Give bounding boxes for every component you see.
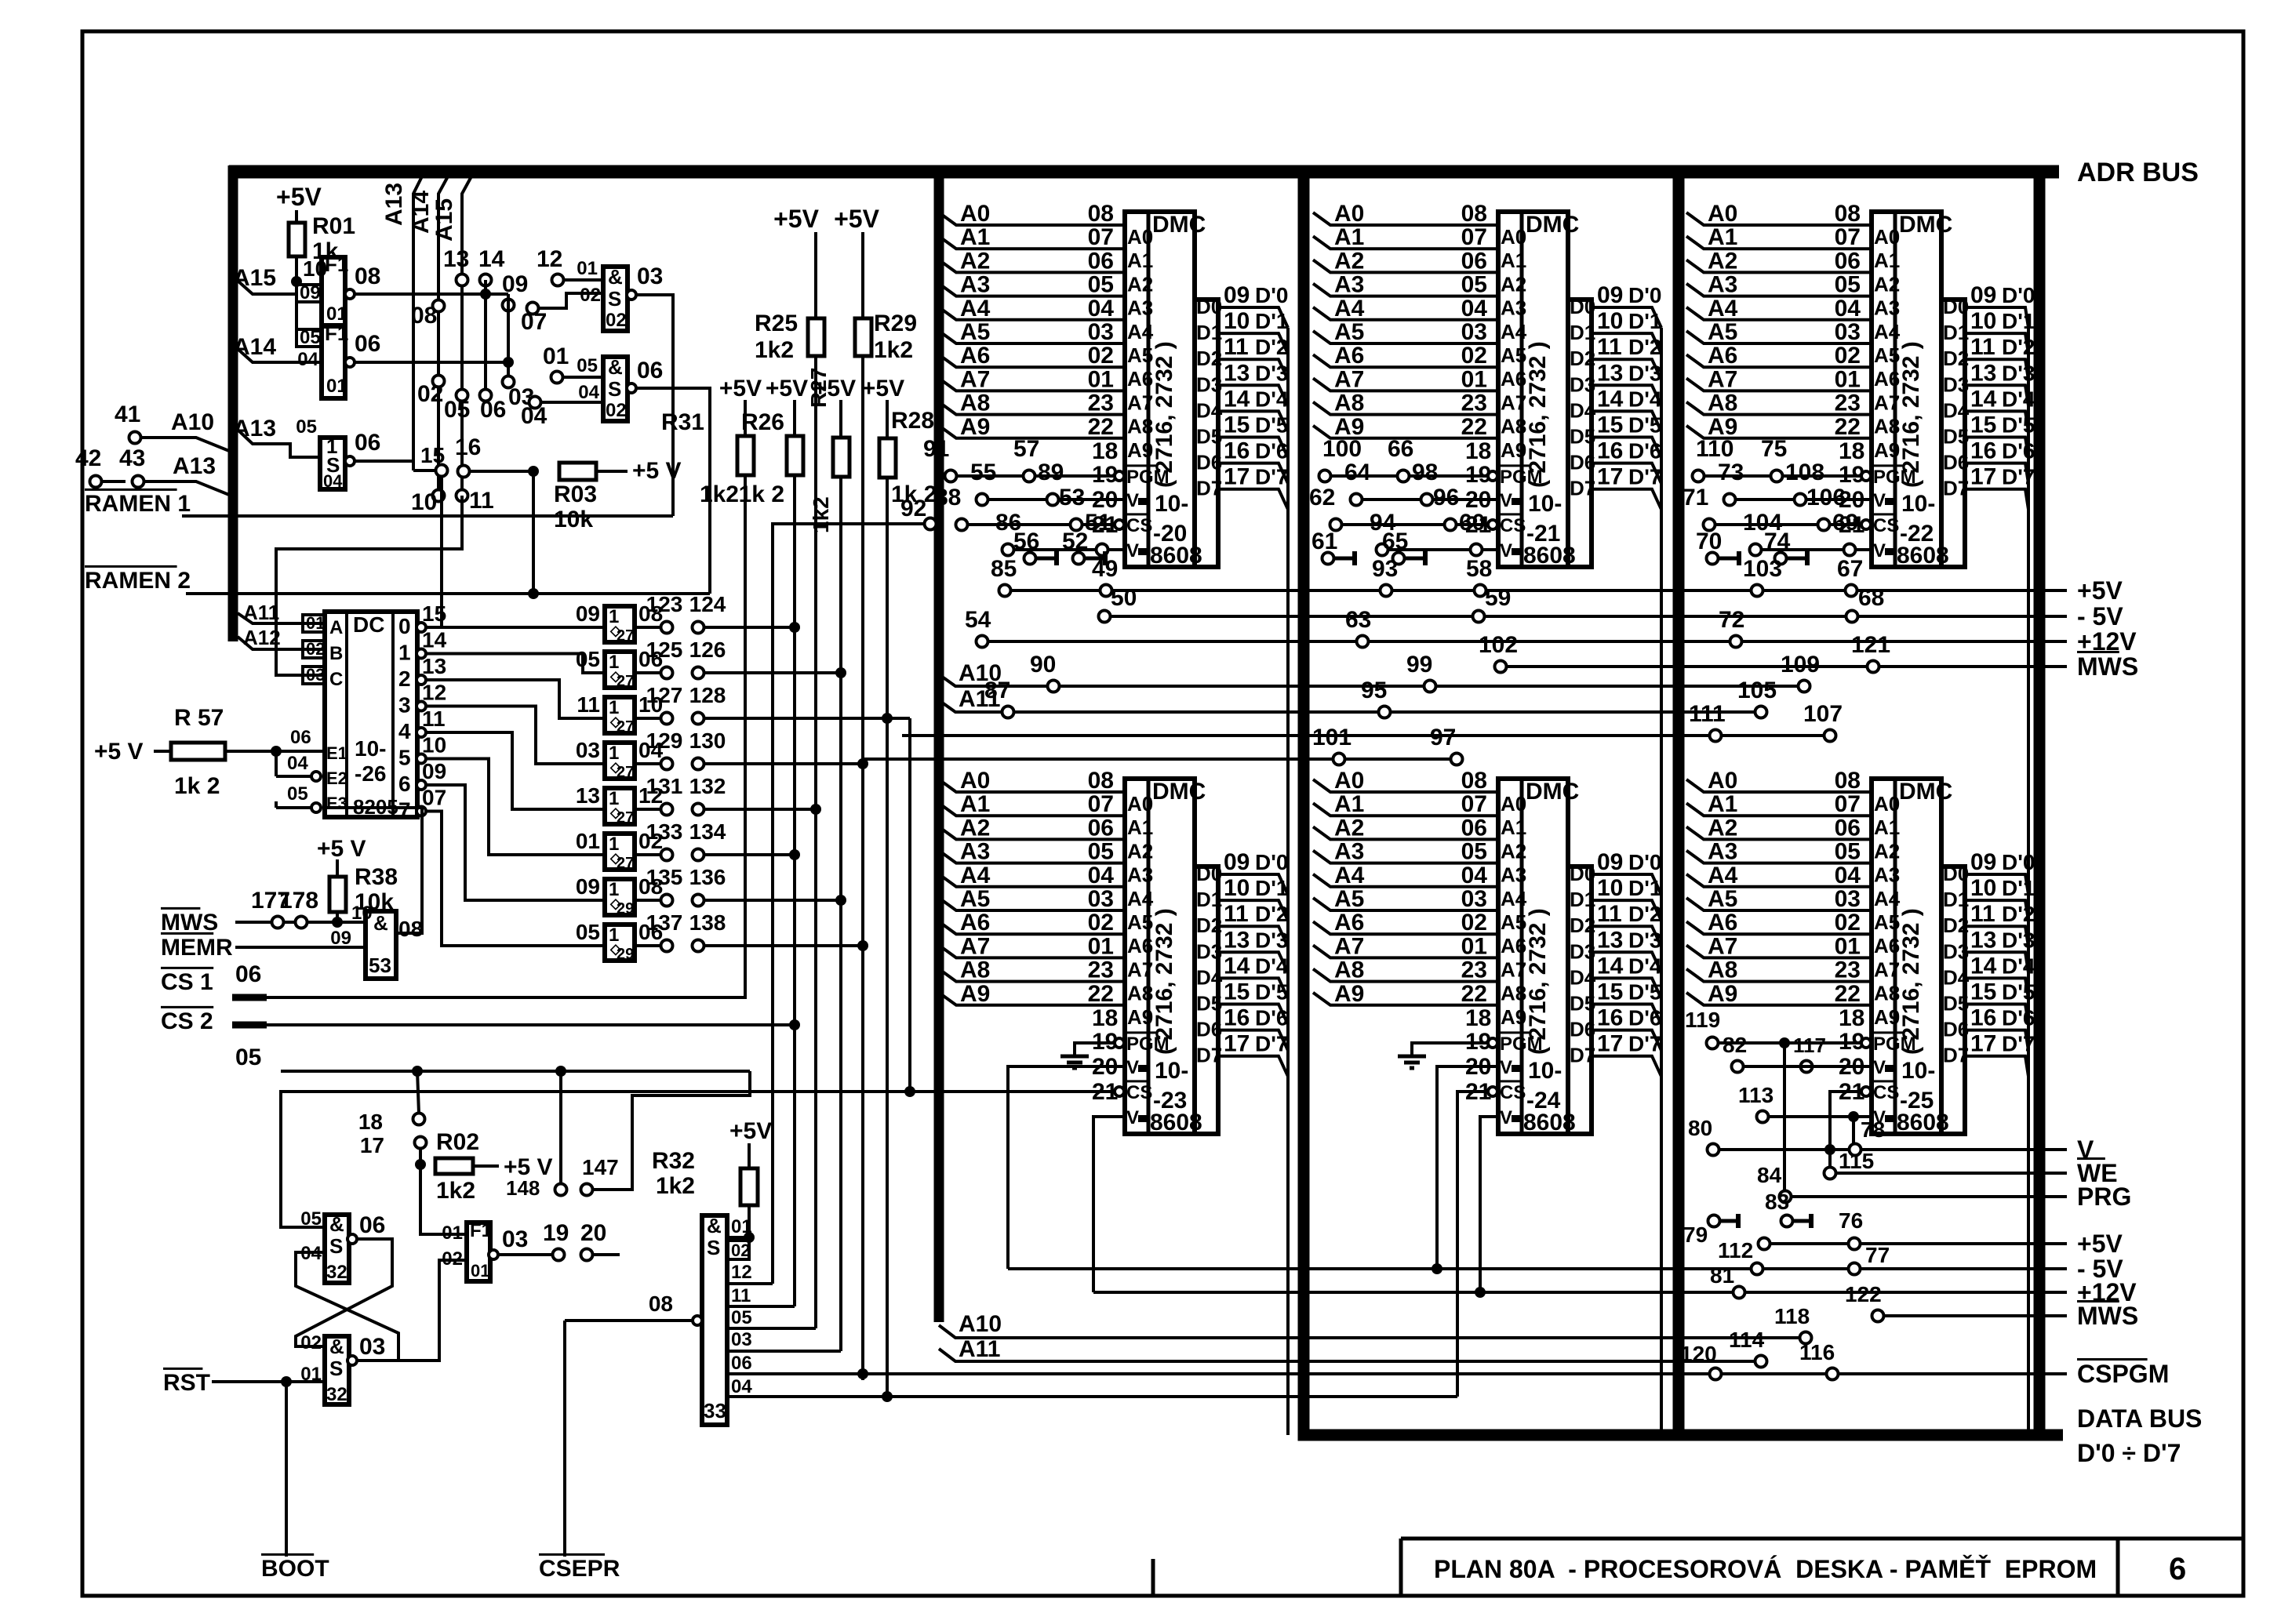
svg-text:04: 04 xyxy=(1088,296,1115,322)
svg-text:32: 32 xyxy=(326,1384,347,1405)
wire R02 node down to F1 input xyxy=(420,1164,467,1234)
pin bubble PGM U10-21 xyxy=(1488,471,1497,481)
svg-text:&: & xyxy=(707,1214,722,1237)
svg-text:122: 122 xyxy=(1845,1282,1882,1306)
svg-text:121: 121 xyxy=(1851,632,1890,658)
svg-text:A10: A10 xyxy=(171,409,214,435)
buffer gate 29 row 7 xyxy=(605,879,635,915)
col3 right thick vertical bus xyxy=(2034,165,2046,1441)
svg-text:17: 17 xyxy=(1970,464,1996,490)
svg-text:A8: A8 xyxy=(1127,415,1153,438)
junction on 08 wire xyxy=(480,289,491,300)
wire decoder out6 to buffer xyxy=(417,780,426,790)
junction on 06 wire xyxy=(503,357,514,368)
svg-text:A7: A7 xyxy=(1334,933,1364,959)
svg-text:D'5: D'5 xyxy=(1255,980,1288,1005)
svg-text:A3: A3 xyxy=(1127,863,1153,887)
vertical wire 09-03 xyxy=(507,294,510,382)
wire address A4 chip U10-20 xyxy=(939,307,1125,320)
wire address A7 chip U10-21 xyxy=(1313,378,1498,391)
svg-text:51: 51 xyxy=(1085,510,1111,536)
svg-text:A7: A7 xyxy=(1708,366,1737,392)
svg-text:D'6: D'6 xyxy=(1255,1006,1288,1030)
svg-text:05: 05 xyxy=(296,416,317,438)
svg-text:A1: A1 xyxy=(960,791,990,817)
svg-text:A13: A13 xyxy=(233,416,276,441)
wire Vdd chain U10-20 xyxy=(982,498,1125,501)
svg-text:43: 43 xyxy=(119,445,145,471)
svg-text:99: 99 xyxy=(1406,652,1432,678)
svg-text:PGM: PGM xyxy=(1873,467,1916,488)
svg-text:56: 56 xyxy=(1013,529,1039,554)
svg-text:05: 05 xyxy=(444,397,470,423)
svg-text:52: 52 xyxy=(1062,529,1088,554)
wire address A3 chip U10-25 xyxy=(1686,851,1872,863)
svg-text:89: 89 xyxy=(1038,460,1064,485)
svg-text:A0: A0 xyxy=(960,768,990,794)
svg-text:ADR BUS: ADR BUS xyxy=(2077,158,2199,187)
wire address A2 chip U10-21 xyxy=(1313,260,1498,272)
svg-text:D'0: D'0 xyxy=(2002,850,2035,874)
svg-text:1k2: 1k2 xyxy=(436,1178,475,1204)
vertical wire 14-06 xyxy=(484,280,487,395)
svg-text:73: 73 xyxy=(1718,460,1744,485)
svg-text:D2: D2 xyxy=(1943,914,1969,937)
wire data D0 chip U10-24 xyxy=(1592,874,1661,895)
svg-text:&: & xyxy=(329,1335,344,1358)
svg-text:A9: A9 xyxy=(1127,1005,1153,1029)
svg-text:CS 2: CS 2 xyxy=(161,1008,213,1034)
svg-text:17: 17 xyxy=(1597,464,1623,490)
pin bubble PGM U10-25 xyxy=(1861,1038,1871,1048)
svg-text:138: 138 xyxy=(689,910,726,935)
svg-text:D'4: D'4 xyxy=(2002,954,2035,978)
wire 148 riser xyxy=(559,1071,562,1184)
junction R38 xyxy=(332,917,343,928)
wire data D6 chip U10-24 xyxy=(1592,1030,1661,1051)
xor gate F1b (half 7486) xyxy=(322,326,345,398)
svg-text:D4: D4 xyxy=(1196,965,1223,989)
svg-text:137: 137 xyxy=(646,910,683,935)
svg-text:D4: D4 xyxy=(1943,965,1970,989)
svg-text:87: 87 xyxy=(984,678,1010,703)
svg-text:110: 110 xyxy=(1696,436,1733,462)
svg-text:02: 02 xyxy=(442,1248,463,1270)
node 07 xyxy=(527,303,539,314)
node 130 xyxy=(693,758,704,770)
svg-text:A1: A1 xyxy=(1127,249,1153,272)
svg-text:-26: -26 xyxy=(355,761,386,786)
svg-text:50: 50 xyxy=(1111,585,1137,611)
svg-text:09: 09 xyxy=(1597,282,1623,308)
svg-text:A1: A1 xyxy=(1501,816,1526,839)
svg-text:D'1: D'1 xyxy=(2002,876,2035,900)
svg-text:A3: A3 xyxy=(1708,839,1737,865)
svg-text:A5: A5 xyxy=(960,319,990,345)
svg-text:A0: A0 xyxy=(1708,201,1737,227)
svg-text:PGM: PGM xyxy=(1500,1034,1543,1055)
svg-text:A7: A7 xyxy=(960,366,990,392)
svg-text:D4: D4 xyxy=(1570,965,1596,989)
svg-text:A1: A1 xyxy=(1501,249,1526,272)
svg-text:77: 77 xyxy=(1865,1243,1890,1267)
svg-text:02: 02 xyxy=(1088,910,1114,936)
wire data D5 chip U10-20 xyxy=(1218,438,1288,458)
svg-text:13: 13 xyxy=(1597,927,1623,953)
svg-text:05: 05 xyxy=(1835,839,1861,865)
wire address A0 chip U10-20 xyxy=(939,213,1125,225)
wire CS chain U10-22 xyxy=(1709,523,1861,526)
svg-text:23: 23 xyxy=(1088,391,1114,416)
wire decoder out0 to buffer xyxy=(417,623,426,632)
svg-text:A3: A3 xyxy=(1334,272,1364,298)
svg-text:148: 148 xyxy=(506,1176,540,1200)
wire address A9 chip U10-22 xyxy=(1686,426,1872,438)
wire address A1 chip U10-25 xyxy=(1686,803,1872,816)
wire CS chain U10-20 xyxy=(962,523,1115,526)
svg-text:A5: A5 xyxy=(960,886,990,912)
wire A10 to left bus xyxy=(141,438,233,452)
svg-text:01: 01 xyxy=(1835,933,1861,959)
svg-text:10k: 10k xyxy=(554,507,593,532)
svg-text:112: 112 xyxy=(1718,1238,1753,1263)
gate 02a output 03 wire to RAMEN1 riser xyxy=(627,290,636,300)
svg-text:27: 27 xyxy=(617,673,634,690)
nand gate 7400 unit 32a xyxy=(325,1215,349,1283)
svg-text:93: 93 xyxy=(1372,556,1398,582)
svg-text:5: 5 xyxy=(398,746,411,770)
wire address A7 chip U10-24 xyxy=(1313,945,1498,957)
wire node 20 stub xyxy=(592,1253,620,1256)
svg-text:A6: A6 xyxy=(1874,934,1900,957)
svg-text:E3: E3 xyxy=(326,794,347,813)
svg-text:102: 102 xyxy=(1479,632,1518,658)
svg-text:10-: 10- xyxy=(1901,491,1935,517)
svg-text:14: 14 xyxy=(1970,953,1997,979)
svg-text:88: 88 xyxy=(935,485,961,510)
wire 11 to decoder input C xyxy=(276,496,462,675)
svg-text:A7: A7 xyxy=(1874,957,1900,981)
wire data D3 chip U10-25 xyxy=(1965,952,2028,972)
svg-text:23: 23 xyxy=(1461,391,1487,416)
xor F1b output 06 wire xyxy=(345,358,355,367)
nand gate 7430 unit 33 xyxy=(702,1215,727,1425)
svg-text:08: 08 xyxy=(1088,201,1114,227)
svg-text:A5: A5 xyxy=(1874,910,1900,934)
wire data D5 chip U10-21 xyxy=(1592,438,1661,458)
wire address A4 chip U10-22 xyxy=(1686,307,1872,320)
wire U10-25 Vdd chain xyxy=(1743,1065,1872,1068)
svg-text:74: 74 xyxy=(1764,529,1791,554)
svg-text:02: 02 xyxy=(606,310,627,331)
svg-text:A8: A8 xyxy=(1334,391,1364,416)
svg-text:126: 126 xyxy=(689,638,726,662)
svg-text:A9: A9 xyxy=(1334,981,1364,1007)
wire to BOOT xyxy=(285,1382,288,1557)
node 132 xyxy=(693,804,704,816)
svg-text:A4: A4 xyxy=(960,863,991,888)
wire address A6 chip U10-20 xyxy=(939,354,1125,367)
svg-text:0: 0 xyxy=(398,614,411,638)
svg-text:A6: A6 xyxy=(1334,343,1364,369)
svg-text:76: 76 xyxy=(1839,1208,1863,1233)
svg-text:+5V: +5V xyxy=(773,205,819,233)
wire address A6 chip U10-23 xyxy=(939,921,1125,934)
svg-text:F1: F1 xyxy=(325,322,348,345)
wire data D7 chip U10-25 xyxy=(1965,1056,2028,1077)
svg-text:A15: A15 xyxy=(431,198,457,242)
svg-text:A5: A5 xyxy=(1708,886,1737,912)
svg-text:PGM: PGM xyxy=(1126,467,1170,488)
EPROM U10-22 DMC 8608 (2716,2732) xyxy=(1872,212,1941,567)
svg-text:69: 69 xyxy=(1832,510,1858,536)
svg-text:14: 14 xyxy=(1597,386,1624,412)
pin bubble CS U10-23 xyxy=(1115,1087,1124,1096)
svg-text:D7: D7 xyxy=(1943,1044,1969,1067)
EPROM U10-21 DMC 8608 (2716,2732) xyxy=(1498,212,1568,567)
svg-text:04: 04 xyxy=(1835,863,1861,888)
wire data D1 chip U10-24 xyxy=(1592,900,1661,921)
svg-text:A4: A4 xyxy=(1334,863,1365,888)
buffer gate 29 row 8 xyxy=(605,925,635,961)
wire data D4 chip U10-21 xyxy=(1592,411,1661,431)
svg-text:D6: D6 xyxy=(1196,451,1222,474)
wire -5V bottom rail xyxy=(1008,1267,2067,1270)
svg-text:133: 133 xyxy=(646,819,683,844)
wire data D2 chip U10-21 xyxy=(1592,359,1661,380)
svg-text:D6: D6 xyxy=(1570,1018,1595,1041)
svg-text:DC: DC xyxy=(353,612,384,637)
svg-text:A9: A9 xyxy=(960,981,990,1007)
wire data D1 chip U10-25 xyxy=(1965,900,2028,921)
svg-text:124: 124 xyxy=(689,592,726,616)
svg-text:09: 09 xyxy=(576,874,600,899)
svg-text:16: 16 xyxy=(1970,438,1996,464)
wire data D2 chip U10-20 xyxy=(1218,359,1288,380)
svg-text:06: 06 xyxy=(1088,815,1114,841)
wire address A1 chip U10-23 xyxy=(939,803,1125,816)
svg-text:06: 06 xyxy=(1461,815,1487,841)
svg-text:02: 02 xyxy=(1835,343,1861,369)
wire 92 to 33-block pin 12 xyxy=(773,524,925,1284)
svg-text:113: 113 xyxy=(1738,1083,1774,1107)
node 78 xyxy=(1850,1144,1861,1156)
svg-text:1: 1 xyxy=(398,641,411,665)
wire data D1 chip U10-23 xyxy=(1218,900,1288,921)
svg-text:V: V xyxy=(1873,540,1886,561)
svg-text:D'5: D'5 xyxy=(1255,413,1288,438)
svg-text:A2: A2 xyxy=(1708,248,1737,274)
svg-text:09: 09 xyxy=(502,271,528,297)
svg-text:8608: 8608 xyxy=(1150,543,1202,569)
resistor R28 1k2 xyxy=(886,400,889,438)
svg-text:+5 V: +5 V xyxy=(94,739,144,765)
svg-text:22: 22 xyxy=(1835,981,1861,1007)
svg-text:D1: D1 xyxy=(1196,888,1222,911)
svg-text:S: S xyxy=(329,1234,343,1258)
svg-text:PGM: PGM xyxy=(1873,1034,1916,1055)
svg-text:15: 15 xyxy=(1224,412,1250,438)
node 124 xyxy=(693,622,704,634)
wire row7 xyxy=(704,899,841,902)
svg-text:67: 67 xyxy=(1837,556,1863,582)
svg-text:09: 09 xyxy=(576,601,600,626)
svg-text:64: 64 xyxy=(1344,460,1371,485)
svg-text:08: 08 xyxy=(355,263,380,289)
svg-text:A8: A8 xyxy=(1708,957,1737,983)
svg-text:130: 130 xyxy=(689,728,726,753)
svg-text:136: 136 xyxy=(689,865,726,889)
svg-text:13: 13 xyxy=(576,783,600,808)
wire address A5 chip U10-20 xyxy=(939,331,1125,343)
svg-text:D1: D1 xyxy=(1570,888,1595,911)
svg-text:D7: D7 xyxy=(1570,1044,1595,1067)
svg-text:90: 90 xyxy=(1030,652,1056,678)
svg-text:R03: R03 xyxy=(554,481,597,507)
wire data D3 chip U10-20 xyxy=(1218,385,1288,405)
svg-text:CS 1: CS 1 xyxy=(161,969,213,995)
node 05 on A15 net xyxy=(457,390,468,401)
svg-text:95: 95 xyxy=(1361,678,1387,703)
svg-text:A5: A5 xyxy=(1708,319,1737,345)
svg-text:D2: D2 xyxy=(1196,347,1222,370)
svg-text:01: 01 xyxy=(577,258,598,279)
wire data D3 chip U10-24 xyxy=(1592,952,1661,972)
stub terminal 74 xyxy=(1775,553,1787,565)
svg-text:A8: A8 xyxy=(1874,415,1900,438)
svg-text:A8: A8 xyxy=(1127,982,1153,1005)
wire MWS mid rail xyxy=(1501,665,2067,668)
svg-text:+5V: +5V xyxy=(729,1118,772,1144)
vertical net A13 from ADR bus xyxy=(413,176,422,470)
svg-text:111: 111 xyxy=(1689,701,1726,727)
svg-text:10-: 10- xyxy=(1528,1058,1562,1084)
svg-text:09: 09 xyxy=(1224,849,1250,875)
wire data D7 chip U10-23 xyxy=(1218,1056,1288,1077)
svg-text:14: 14 xyxy=(478,246,505,272)
EPROM U10-25 DMC 8608 (2716,2732) xyxy=(1872,779,1941,1134)
svg-text:11: 11 xyxy=(1224,901,1249,927)
wire data D6 chip U10-23 xyxy=(1218,1030,1288,1051)
svg-text:04: 04 xyxy=(731,1376,752,1397)
svg-text:178: 178 xyxy=(279,888,318,914)
svg-text:A7: A7 xyxy=(1874,391,1900,414)
svg-text:D'4: D'4 xyxy=(2002,387,2035,411)
svg-text:CS: CS xyxy=(1873,515,1899,536)
svg-text:02: 02 xyxy=(306,639,325,659)
svg-text:05: 05 xyxy=(287,783,308,805)
svg-text:A1: A1 xyxy=(1334,224,1364,250)
wire data D6 chip U10-22 xyxy=(1965,463,2028,484)
svg-text:06: 06 xyxy=(355,430,380,456)
inverter output wire xyxy=(345,456,355,466)
wire +5V to R01 xyxy=(295,210,298,223)
wire R01 to F1 node xyxy=(295,256,298,282)
svg-text:A7: A7 xyxy=(1127,957,1153,981)
svg-text:D'5: D'5 xyxy=(1628,980,1661,1005)
wire address A9 chip U10-25 xyxy=(1686,993,1872,1005)
wire A11 from left bus to decoder xyxy=(238,613,325,623)
svg-text:D'0: D'0 xyxy=(1628,850,1661,874)
wire address A9 chip U10-23 xyxy=(939,993,1125,1005)
wire address A8 chip U10-21 xyxy=(1313,402,1498,415)
svg-text:07: 07 xyxy=(1461,791,1487,817)
svg-text:16: 16 xyxy=(455,434,481,460)
svg-text:A6: A6 xyxy=(960,343,990,369)
svg-text:V: V xyxy=(1500,1107,1512,1128)
wire address A8 chip U10-20 xyxy=(939,402,1125,415)
svg-text:A0: A0 xyxy=(1708,768,1737,794)
wire A11 mid xyxy=(939,700,1761,712)
svg-text:07: 07 xyxy=(521,309,547,335)
svg-text:A11: A11 xyxy=(243,601,279,624)
node 14 xyxy=(480,274,492,286)
svg-text:A1: A1 xyxy=(1708,791,1737,817)
svg-text:PGM: PGM xyxy=(1126,1034,1170,1055)
svg-text:A2: A2 xyxy=(1501,272,1526,296)
gate 02b output 06 wire to RAMEN2 riser xyxy=(627,383,636,393)
svg-text:R27: R27 xyxy=(806,368,831,408)
svg-text:128: 128 xyxy=(689,683,726,707)
pin bubble CS U10-20 xyxy=(1115,520,1124,529)
node 178 xyxy=(296,917,307,928)
svg-text:11: 11 xyxy=(1970,901,1995,927)
wire 17 down to R02 node xyxy=(419,1148,422,1164)
svg-text:23: 23 xyxy=(1461,957,1487,983)
svg-text:A0: A0 xyxy=(1874,792,1900,816)
svg-text:15: 15 xyxy=(420,443,445,467)
wire data D0 chip U10-21 xyxy=(1592,307,1661,328)
svg-text:A0: A0 xyxy=(1501,225,1526,249)
svg-text:55: 55 xyxy=(970,460,996,485)
svg-text:03: 03 xyxy=(359,1334,385,1360)
wire row1 to R26 net xyxy=(704,626,795,629)
wire 04 to gate xyxy=(540,401,603,404)
wire address A8 chip U10-25 xyxy=(1686,969,1872,982)
svg-text:D'2: D'2 xyxy=(1255,335,1288,359)
wire MWS bottom rail xyxy=(1878,1314,2067,1317)
svg-text:71: 71 xyxy=(1683,485,1708,510)
svg-text:S: S xyxy=(329,1357,343,1380)
svg-text:D6: D6 xyxy=(1570,451,1595,474)
wire address A3 chip U10-23 xyxy=(939,851,1125,863)
svg-text:135: 135 xyxy=(646,865,683,889)
svg-text:A4: A4 xyxy=(1708,863,1738,888)
svg-text:D'3: D'3 xyxy=(2002,361,2035,385)
svg-text:10-: 10- xyxy=(1155,1058,1188,1084)
svg-text:14: 14 xyxy=(1224,386,1250,412)
pin bubble PGM U10-24 xyxy=(1488,1038,1497,1048)
node 08 on A14 net xyxy=(433,300,445,312)
wire address A2 chip U10-20 xyxy=(939,260,1125,272)
svg-text:D'5: D'5 xyxy=(2002,980,2035,1005)
node 131 xyxy=(635,808,661,811)
wire data bus collector col1 xyxy=(1286,328,1290,1435)
svg-text:C: C xyxy=(329,669,343,690)
wire address A1 chip U10-21 xyxy=(1313,236,1498,249)
svg-text:A2: A2 xyxy=(960,815,990,841)
svg-text:A8: A8 xyxy=(1501,415,1526,438)
svg-text:01: 01 xyxy=(326,376,347,397)
svg-text:42: 42 xyxy=(75,445,101,471)
svg-text:A3: A3 xyxy=(1708,272,1737,298)
wire address A9 chip U10-24 xyxy=(1313,993,1498,1005)
svg-text:D4: D4 xyxy=(1196,398,1223,422)
wire U10-25 Vbb chain xyxy=(1768,1115,1872,1118)
wire top link xyxy=(281,1070,750,1073)
wire decoder out7 to buffer xyxy=(417,807,426,816)
svg-text:129: 129 xyxy=(646,728,683,753)
